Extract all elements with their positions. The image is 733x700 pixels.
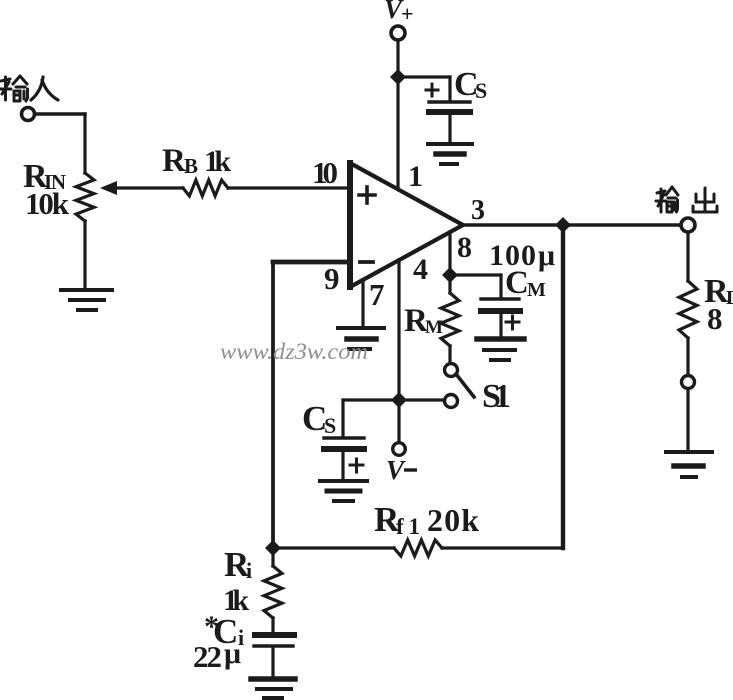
wire R_i to C_i xyxy=(271,618,274,632)
wire input down to R_IN xyxy=(83,114,86,173)
node junction at V+ rail xyxy=(390,69,406,85)
svg-text:μ: μ xyxy=(538,239,555,272)
svg-text:10k: 10k xyxy=(25,186,70,221)
svg-text:1k: 1k xyxy=(204,145,231,178)
resistor R_IN (potentiometer body) xyxy=(76,173,94,221)
svg-text:20k: 20k xyxy=(427,502,479,538)
svg-text:S: S xyxy=(324,413,336,438)
switch S1 top contact xyxy=(445,364,458,377)
node 输入 input terminal xyxy=(22,108,35,121)
svg-text:f1: f1 xyxy=(396,514,420,539)
node R_L lower terminal xyxy=(682,376,695,389)
svg-text:9: 9 xyxy=(324,261,340,296)
svg-text:www.dz3w.com: www.dz3w.com xyxy=(220,339,368,364)
switch S1 bottom contact xyxy=(445,395,458,408)
wiper arrow of potentiometer xyxy=(100,181,183,195)
node V- terminal xyxy=(393,443,406,456)
node junction pin 4 rail xyxy=(391,392,407,408)
wire R_f1 to output vertical xyxy=(442,546,563,549)
wire R_IN to ground xyxy=(83,221,86,289)
svg-text:+: + xyxy=(401,1,414,26)
输 right part 俞 xyxy=(13,76,28,101)
svg-text:M: M xyxy=(527,279,546,301)
出 xyxy=(693,188,717,212)
wire V+ down to op-amp pin 1 xyxy=(396,40,399,189)
ground below CS lower xyxy=(320,481,367,501)
svg-text:8: 8 xyxy=(707,301,723,336)
op-amp plus input mark xyxy=(359,187,375,203)
svg-text:i: i xyxy=(246,558,252,583)
node output junction xyxy=(555,217,571,233)
输 right part 俞 xyxy=(666,187,678,212)
node junction pin 8 xyxy=(442,267,458,283)
switch S1 blade xyxy=(456,374,474,397)
wire pin 8 down xyxy=(448,232,451,293)
svg-text:8: 8 xyxy=(457,231,472,264)
svg-text:C: C xyxy=(505,265,529,301)
capacitor C_i xyxy=(254,635,294,677)
wire R_L to mid terminal xyxy=(686,338,689,375)
wire CS lower rail to S1 xyxy=(343,398,444,401)
node V+ terminal xyxy=(391,26,405,40)
输 left radical 车 xyxy=(0,77,11,100)
svg-text:S1: S1 xyxy=(482,378,511,415)
CM polarity plus xyxy=(506,316,519,329)
wire junction to R_f1 xyxy=(273,546,394,549)
wire input horizontal xyxy=(35,112,85,116)
wire to ground R_L xyxy=(686,389,689,451)
svg-text:V: V xyxy=(386,455,406,485)
wire feedback vertical xyxy=(271,262,275,548)
capacitor CS (lower) xyxy=(324,400,364,478)
svg-text:3: 3 xyxy=(471,195,485,226)
svg-text:4: 4 xyxy=(413,253,428,286)
ground below R_IN xyxy=(61,290,112,310)
svg-text:μ: μ xyxy=(224,637,241,670)
wire op-amp output to 输出 terminal xyxy=(463,223,681,227)
ground below CS upper xyxy=(428,144,472,164)
ground below pin 7 xyxy=(338,328,384,349)
wire pin 4 down to V- xyxy=(397,260,400,443)
svg-text:10: 10 xyxy=(312,155,338,190)
wire op-amp pin 9 input xyxy=(273,260,350,265)
resistor R_M xyxy=(441,293,459,346)
wire R_M to switch xyxy=(448,346,451,363)
输 left radical 车 xyxy=(656,189,666,212)
op-amp minus input mark xyxy=(360,260,373,264)
svg-text:1: 1 xyxy=(408,160,423,193)
svg-text:M: M xyxy=(425,317,443,338)
svg-text:7: 7 xyxy=(369,277,385,312)
CS lower polarity plus xyxy=(350,459,363,472)
resistor R_i xyxy=(264,566,282,618)
wire junction to CM xyxy=(450,273,501,276)
svg-text:S: S xyxy=(475,78,487,103)
ground below R_L xyxy=(666,452,712,477)
capacitor CS (upper) xyxy=(429,77,470,142)
resistor R_L xyxy=(679,281,697,338)
wire R_B to op-amp pin 10 xyxy=(228,186,350,189)
svg-text:B: B xyxy=(184,154,198,178)
ground below CM xyxy=(477,339,524,360)
node feedback junction xyxy=(265,540,281,556)
svg-text:L: L xyxy=(726,287,733,309)
wire pin 7 down xyxy=(361,280,364,327)
CS upper polarity plus xyxy=(426,84,438,96)
入 xyxy=(31,77,58,100)
node 输出 output terminal xyxy=(681,218,695,232)
op-amp U1 triangle xyxy=(350,163,463,287)
svg-text:22: 22 xyxy=(193,639,222,674)
ground below C_i xyxy=(251,679,295,698)
label 输入 (input) drawn glyphs xyxy=(0,76,58,101)
resistor R_f1 xyxy=(394,540,442,556)
wire V+ rail to CS xyxy=(398,75,450,78)
resistor R_B xyxy=(183,180,228,196)
wire output vertical down to R_f1 xyxy=(561,225,565,548)
wire junction down to R_i xyxy=(271,548,274,566)
capacitor CM xyxy=(481,275,520,336)
wire 输出 to R_L xyxy=(686,232,689,281)
label 输出 (output) drawn glyphs xyxy=(656,187,717,212)
